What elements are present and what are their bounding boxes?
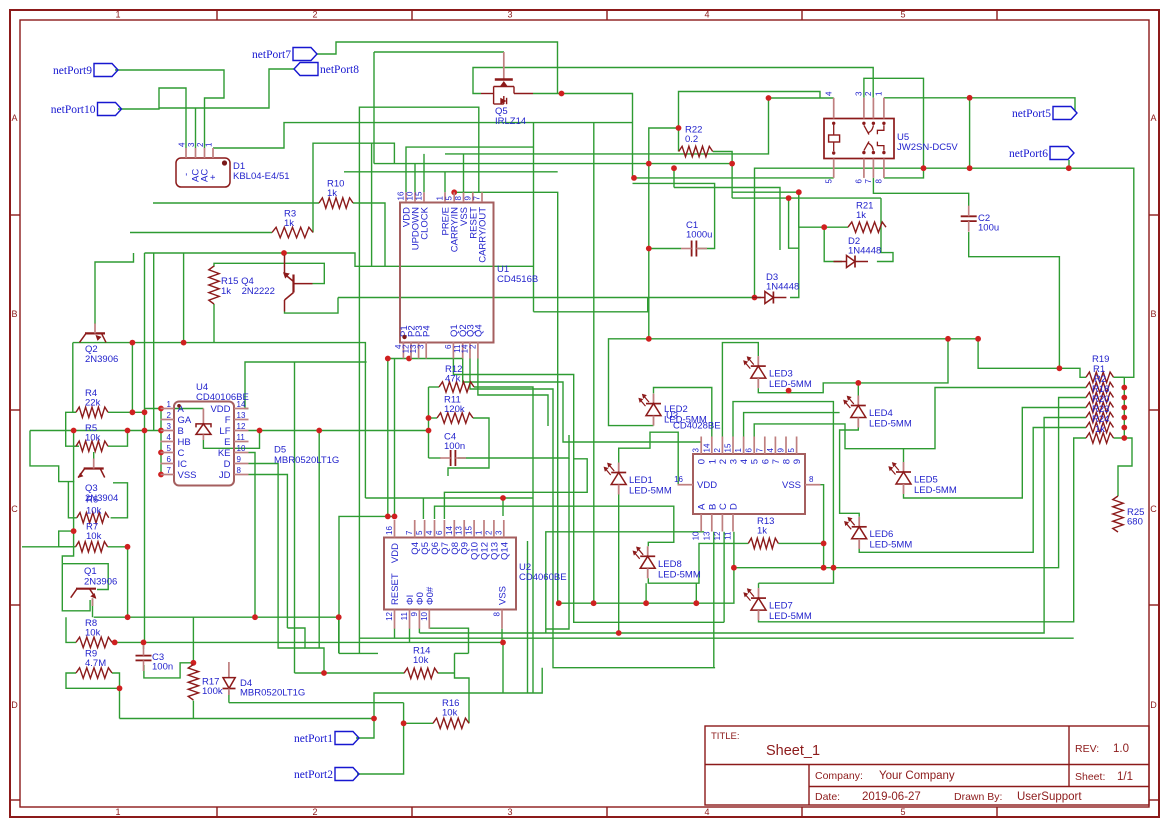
svg-text:4: 4 <box>167 433 172 442</box>
svg-text:1000u: 1000u <box>686 230 712 241</box>
svg-text:IRLZ14: IRLZ14 <box>495 116 526 127</box>
svg-text:8: 8 <box>875 178 884 183</box>
wire Q1 bottom stub <box>92 598 94 617</box>
junction J13 <box>729 161 735 167</box>
svg-text:5: 5 <box>445 196 454 201</box>
svg-text:1: 1 <box>115 10 120 20</box>
wire R14 line <box>295 672 405 674</box>
junction J26 <box>385 356 391 362</box>
wire LED7 top link <box>759 568 834 584</box>
resistor R13 <box>748 538 778 548</box>
wire x768 link <box>755 98 769 154</box>
wire x359 top net <box>359 107 478 266</box>
capacitor C4 <box>440 450 466 466</box>
label R16 value <box>442 698 459 719</box>
junction J44 <box>125 544 131 550</box>
svg-text:15: 15 <box>415 191 424 200</box>
svg-text:6: 6 <box>167 455 172 464</box>
wire U1 p15 feed <box>423 154 425 192</box>
wire D1 pin1 bus <box>213 123 633 148</box>
wire pinD drop <box>733 532 735 568</box>
wire Q5 source run <box>533 94 834 178</box>
label R19 stack <box>1092 354 1109 435</box>
svg-text:8: 8 <box>493 611 502 616</box>
svg-text:4: 4 <box>739 459 750 464</box>
wire bus y198 <box>732 197 881 199</box>
label Q5 <box>495 106 526 127</box>
svg-text:LED1: LED1 <box>629 475 653 486</box>
svg-text:netPort2: netPort2 <box>294 769 333 781</box>
svg-text:Q1: Q1 <box>84 566 97 577</box>
wire LED6 bottom <box>859 428 1086 553</box>
wire LED7 bottom <box>759 438 1087 622</box>
wire U4 pin9 right <box>249 464 306 649</box>
net port netPort8 <box>294 63 359 77</box>
svg-text:netPort9: netPort9 <box>53 65 92 77</box>
label LED7 value <box>769 601 812 623</box>
wire Q5 gate run <box>473 68 873 98</box>
junction J2 <box>921 165 927 171</box>
wire netPort5 drop <box>969 98 971 168</box>
resistor R19 row 2 <box>1086 382 1114 392</box>
label LED1 value <box>629 475 672 497</box>
svg-text:CD4516B: CD4516B <box>497 274 538 285</box>
wire U1 vdd feed <box>406 147 534 192</box>
svg-text:1: 1 <box>734 448 743 453</box>
wire U2 bottom p10 <box>429 628 468 653</box>
svg-text:2019-06-27: 2019-06-27 <box>862 791 921 803</box>
junction J6 <box>967 165 973 171</box>
junction J31 <box>500 495 506 501</box>
svg-text:D5: D5 <box>274 445 286 456</box>
wire relay 3-8 link <box>864 78 924 178</box>
junction J46 <box>252 614 258 620</box>
svg-text:B: B <box>11 309 17 319</box>
junction J35 <box>158 428 164 434</box>
junction J58 <box>591 600 597 606</box>
wire R16 right <box>455 653 470 723</box>
svg-text:2: 2 <box>167 411 172 420</box>
svg-text:4: 4 <box>825 91 834 96</box>
label R7 value <box>86 522 102 543</box>
junction J8 <box>766 95 772 101</box>
junction J25 <box>451 189 457 195</box>
wire LED2 top <box>654 388 712 437</box>
svg-text:C: C <box>178 448 185 459</box>
svg-text:4: 4 <box>178 142 187 147</box>
svg-text:6: 6 <box>745 448 754 453</box>
svg-text:2: 2 <box>312 807 317 817</box>
svg-text:100n: 100n <box>152 662 173 673</box>
wire R22 left riser <box>678 128 680 152</box>
wire R12 right <box>474 387 533 693</box>
label D3 value <box>766 272 799 293</box>
LED LED5 <box>889 462 911 494</box>
wire y617 line <box>94 617 339 653</box>
junction J20 <box>1057 365 1063 371</box>
svg-text:VDD: VDD <box>390 543 401 563</box>
junction J51 <box>191 660 197 666</box>
wire LED5 top <box>903 449 905 462</box>
net port netPort6 <box>1009 147 1074 161</box>
svg-text:+: + <box>208 174 219 180</box>
net port netPort10 <box>51 103 122 117</box>
wire netPort2 riser <box>357 703 404 774</box>
wire D1 pin3 feed <box>195 108 197 148</box>
wire y603 line <box>559 568 734 604</box>
svg-text:6: 6 <box>855 178 864 183</box>
junction J15 <box>786 195 792 201</box>
wire y567 line <box>734 398 1086 568</box>
svg-text:netPort5: netPort5 <box>1012 108 1051 120</box>
svg-text:5: 5 <box>787 448 796 453</box>
label C1 value <box>686 220 712 241</box>
svg-text:C: C <box>1150 504 1157 514</box>
wire Q3 emitter link <box>68 482 76 518</box>
svg-text:CARRY/OUT: CARRY/OUT <box>478 207 489 263</box>
wire R13 left chain <box>648 543 748 583</box>
wire q feed b <box>502 498 504 516</box>
wire Q2 line <box>73 343 366 498</box>
wire y128 line <box>649 128 679 249</box>
wire R7 line in <box>22 546 76 548</box>
wire U2 pin16 line <box>339 516 395 653</box>
wire R14 left up <box>294 362 296 673</box>
wire R4 right <box>108 411 145 413</box>
label R3 value <box>284 209 296 230</box>
svg-text:1: 1 <box>167 400 172 409</box>
wire x132 link <box>131 343 133 413</box>
svg-text:5: 5 <box>900 10 905 20</box>
svg-text:D: D <box>1150 700 1157 710</box>
svg-text:KBL04-E4/51: KBL04-E4/51 <box>233 171 290 182</box>
resistor R19 row 1 <box>1086 372 1114 382</box>
label U3 <box>666 411 721 432</box>
junction J59 <box>643 600 649 606</box>
svg-text:1: 1 <box>475 530 484 535</box>
wire netPort1 line <box>120 718 375 720</box>
svg-text:13: 13 <box>455 526 464 535</box>
wire y531 line <box>546 532 704 633</box>
junction J23 <box>130 340 136 346</box>
resistor R11 <box>437 413 473 423</box>
LED LED1 <box>604 463 626 495</box>
svg-text:Drawn By:: Drawn By: <box>954 791 1002 803</box>
junction J4 <box>752 295 758 301</box>
wire R7 left chain <box>59 531 76 547</box>
junction J32 <box>385 514 391 520</box>
svg-text:4: 4 <box>425 530 434 535</box>
svg-text:Sheet_1: Sheet_1 <box>766 743 820 759</box>
label C4 value <box>444 432 465 453</box>
net port netPort1 <box>294 732 359 746</box>
wire U2 q6 chain <box>444 459 587 519</box>
junction J14 <box>855 380 861 386</box>
wire R14 right <box>438 672 455 674</box>
resistor R21 <box>848 222 886 232</box>
transistor Q4 <box>283 255 313 312</box>
svg-text:Q4: Q4 <box>473 324 484 337</box>
label D1 <box>233 161 290 182</box>
svg-text:11: 11 <box>400 611 409 620</box>
svg-text:7: 7 <box>405 530 414 535</box>
MOSFET Q5 <box>481 52 533 104</box>
wire Q5 drain feed <box>374 51 504 53</box>
junction J56 <box>616 630 622 636</box>
wire x503 drop <box>502 642 504 693</box>
svg-text:3: 3 <box>692 448 701 453</box>
svg-text:4: 4 <box>704 807 709 817</box>
junction J66 <box>1121 385 1127 391</box>
label LED5 value <box>914 475 957 497</box>
wire U1 p1 feed <box>444 172 446 193</box>
junction J40 <box>142 428 148 434</box>
svg-text:5: 5 <box>825 178 834 183</box>
label C2 value <box>978 213 999 234</box>
wire LED1 bottom <box>618 495 620 634</box>
wire netPort10 run <box>118 88 186 148</box>
svg-text:2: 2 <box>864 91 873 96</box>
svg-text:10: 10 <box>406 191 415 200</box>
svg-text:Your Company: Your Company <box>879 770 955 782</box>
junction J12 <box>646 336 652 342</box>
wire U3 VSS down <box>808 485 824 568</box>
junction J28 <box>426 415 432 421</box>
wire C2 bottom run <box>969 232 1060 368</box>
wire D4 bottom <box>228 691 230 703</box>
junction J53 <box>401 720 407 726</box>
transistor Q2 <box>80 323 107 342</box>
svg-text:MBR0520LT1G: MBR0520LT1G <box>274 455 339 466</box>
svg-text:3: 3 <box>417 344 426 349</box>
wire D3 line <box>338 297 649 299</box>
svg-text:7: 7 <box>167 466 172 475</box>
svg-text:1: 1 <box>115 807 120 817</box>
junction J57 <box>556 600 562 606</box>
svg-text:F: F <box>225 415 231 426</box>
IC U4 CD40106BE <box>161 400 249 486</box>
wire U2 vss drop <box>501 629 503 643</box>
wire netPort9 run <box>115 70 224 148</box>
wire R19 row1 right <box>1114 376 1125 378</box>
LED LED2 <box>639 394 661 426</box>
svg-text:VSS: VSS <box>782 480 801 491</box>
wire C1 top rail <box>649 248 681 250</box>
svg-text:LED-5MM: LED-5MM <box>869 419 912 430</box>
svg-text:2: 2 <box>312 10 317 20</box>
svg-text:3: 3 <box>729 459 740 464</box>
svg-text:P4: P4 <box>422 325 433 337</box>
wire C1 right loop <box>633 183 715 248</box>
svg-text:2: 2 <box>484 530 493 535</box>
junction J7 <box>676 125 682 131</box>
diode D3 <box>752 292 787 304</box>
label C3 value <box>152 652 173 673</box>
svg-text:CD4028BE: CD4028BE <box>673 421 721 432</box>
resistor R19 row 5 <box>1086 412 1114 422</box>
wire Q3 collector <box>93 452 95 467</box>
svg-text:9: 9 <box>777 448 786 453</box>
junction J54 <box>321 670 327 676</box>
wire x533 rail <box>533 123 535 312</box>
svg-text:3: 3 <box>507 807 512 817</box>
wire x183 link <box>183 253 185 343</box>
svg-text:100n: 100n <box>444 441 465 452</box>
svg-text:6: 6 <box>435 530 444 535</box>
wire U1 Q-line1 <box>453 359 724 623</box>
wire U1 p8 feed <box>463 154 465 192</box>
resistor R4 <box>76 407 108 417</box>
svg-text:LED3: LED3 <box>769 369 793 380</box>
svg-text:8: 8 <box>237 466 242 475</box>
resistor R15 <box>209 266 219 304</box>
net port netPort2 <box>294 768 359 782</box>
wire y187 line <box>674 188 780 251</box>
wire LED3 top chain <box>722 343 758 437</box>
wire x374 drop <box>373 52 375 164</box>
wire relay pin4 feed <box>769 97 834 99</box>
svg-text:LED5: LED5 <box>914 475 938 486</box>
svg-text:1: 1 <box>875 91 884 96</box>
wire R4 left rail <box>73 343 76 413</box>
junction J64 <box>831 565 837 571</box>
wire y643 line <box>115 641 503 643</box>
svg-text:100u: 100u <box>978 223 999 234</box>
label U4 <box>196 382 249 403</box>
svg-text:LED-5MM: LED-5MM <box>769 611 812 622</box>
wire x73 rail <box>73 431 75 532</box>
wire netPort8 run <box>159 69 294 108</box>
wire y171 line <box>344 171 558 173</box>
svg-text:netPort1: netPort1 <box>294 733 333 745</box>
svg-text:VSS: VSS <box>498 586 509 605</box>
wire R21 line <box>799 192 848 227</box>
wire C3 bottom <box>144 663 194 678</box>
wire x371 drop <box>371 143 373 266</box>
wire y633 line <box>419 418 1086 634</box>
wire C3 top <box>143 642 145 649</box>
junction J60 <box>693 600 699 606</box>
wire y638 line <box>359 637 1073 639</box>
svg-text:UserSupport: UserSupport <box>1017 791 1082 803</box>
svg-text:9: 9 <box>410 611 419 616</box>
svg-text:16: 16 <box>397 191 406 200</box>
svg-text:netPort8: netPort8 <box>320 64 359 76</box>
svg-text:47k: 47k <box>445 374 461 385</box>
junction J37 <box>158 472 164 478</box>
svg-text:12: 12 <box>385 611 394 620</box>
wire R22 right run <box>713 152 732 164</box>
wire U2 bottom p11 <box>409 629 411 643</box>
resistor R19 row 6 <box>1086 422 1114 432</box>
svg-text:LED-5MM: LED-5MM <box>658 570 701 581</box>
wire x788 drop <box>789 198 799 248</box>
label R12 value <box>445 364 462 385</box>
svg-text:11: 11 <box>724 531 733 540</box>
wire U4 pin1 feed <box>145 408 162 410</box>
label R6 behind <box>86 495 102 517</box>
svg-text:Date:: Date: <box>815 791 840 803</box>
wire x527 filler <box>527 541 529 693</box>
wire D3 riser <box>790 192 799 297</box>
svg-text:6: 6 <box>444 344 453 349</box>
junction J27 <box>406 356 412 362</box>
junction J67 <box>1121 395 1127 401</box>
resistor R8 <box>76 637 112 647</box>
label LED4 value <box>869 408 912 430</box>
junction J43 <box>71 528 77 534</box>
junction J38 <box>130 409 136 415</box>
label Q2 value <box>85 344 118 365</box>
wire U3 nestB <box>744 413 840 437</box>
svg-text:1: 1 <box>707 459 718 464</box>
svg-text:9: 9 <box>792 459 803 464</box>
wire R10 right <box>353 203 385 266</box>
wire C1 left drop <box>648 249 650 339</box>
svg-text:7: 7 <box>864 178 873 183</box>
svg-text:13: 13 <box>702 531 711 540</box>
label R21 value <box>856 201 873 222</box>
LED LED6 <box>845 517 867 549</box>
wire netPort6 stub <box>1068 160 1070 168</box>
svg-text:3: 3 <box>167 422 172 431</box>
svg-text:5: 5 <box>415 530 424 535</box>
wire D2 anode loop <box>877 198 893 261</box>
label R22 value <box>685 125 702 146</box>
wire R9 right <box>112 673 120 688</box>
label Q4 <box>221 276 275 297</box>
label D5 <box>274 445 339 467</box>
wire U4 pin10 right <box>249 453 256 618</box>
junction J68 <box>1121 405 1127 411</box>
svg-text:13: 13 <box>237 411 246 420</box>
junction J21 <box>786 388 792 394</box>
svg-text:1N4448: 1N4448 <box>848 246 881 257</box>
resistor R19 row 3 <box>1086 392 1114 402</box>
svg-text:10k: 10k <box>442 708 458 719</box>
LED LED8 <box>633 546 655 578</box>
wire U4 pin14 up <box>245 362 367 409</box>
transistor Q1 <box>71 589 97 606</box>
svg-text:JD: JD <box>219 470 231 481</box>
junction J61 <box>731 565 737 571</box>
svg-text:3: 3 <box>494 530 503 535</box>
svg-text:9: 9 <box>237 455 242 464</box>
label R5 value <box>85 423 101 444</box>
svg-text:2: 2 <box>468 344 477 349</box>
svg-text:LED4: LED4 <box>869 408 893 419</box>
wire U4 pin8 right <box>249 475 288 629</box>
label R4 value <box>85 388 101 409</box>
wire x359 rail <box>358 266 360 653</box>
wire y311 link <box>534 298 648 312</box>
junction J16 <box>796 189 802 195</box>
svg-text:CD4060BE: CD4060BE <box>519 572 567 583</box>
svg-text:4.7M: 4.7M <box>85 658 106 669</box>
wire Q2 collector up <box>94 270 96 324</box>
junction J63 <box>821 541 827 547</box>
wire x696 link <box>695 583 697 603</box>
svg-text:9: 9 <box>463 196 472 201</box>
relay U5 <box>824 91 894 183</box>
wire x324 up <box>287 628 324 673</box>
svg-text:11: 11 <box>237 433 246 442</box>
wire R7 right <box>108 546 128 548</box>
wire Q2 top bend <box>95 253 134 270</box>
wire D3 left lead <box>649 297 761 299</box>
svg-text:120k: 120k <box>444 404 465 415</box>
wire LED4 top <box>857 383 859 396</box>
